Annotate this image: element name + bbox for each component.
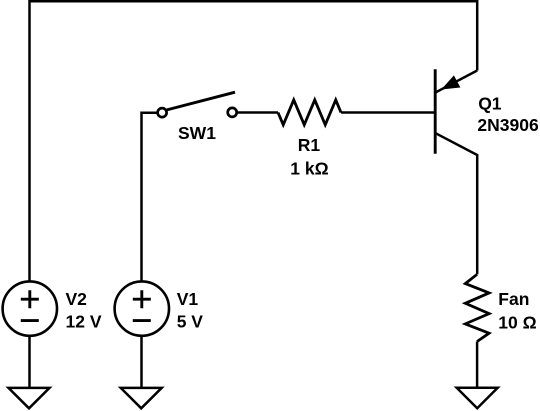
resistor Fan (465, 274, 489, 341)
svg-text:5 V: 5 V (177, 312, 204, 332)
svg-text:2N3906: 2N3906 (477, 115, 539, 135)
svg-text:R1: R1 (298, 135, 321, 155)
V1 minus sign (133, 319, 151, 322)
wire: Fan to ground (476, 342, 479, 389)
svg-text:10 Ω: 10 Ω (498, 313, 536, 333)
wire: V2 to ground (28, 336, 31, 388)
wire: top rail from V2 to Q1 emitter (30, 1, 478, 281)
svg-text:Fan: Fan (498, 289, 529, 309)
switch SW1 right terminal (228, 108, 237, 117)
wire: SW1 left terminal down to V1 (142, 113, 158, 282)
ground (V2) (9, 388, 50, 408)
ground (V1) (121, 388, 162, 408)
voltage source V1 circle (115, 281, 169, 335)
switch SW1 left terminal (158, 108, 167, 117)
ground (Fan) (457, 388, 498, 408)
V1 plus sign (133, 290, 151, 308)
V2 plus sign (21, 290, 39, 308)
switch SW1 lever (166, 92, 235, 110)
svg-text:1 kΩ: 1 kΩ (290, 158, 328, 178)
voltage source V2 circle (3, 281, 57, 335)
transistor Q1 collector lead (436, 133, 477, 274)
svg-text:V2: V2 (66, 289, 88, 309)
wire: V1 to ground (140, 336, 143, 388)
svg-text:12 V: 12 V (66, 312, 102, 332)
transistor Q1 emitter arrow (PNP) (442, 76, 459, 89)
V2 minus sign (21, 319, 39, 322)
svg-text:V1: V1 (177, 289, 199, 309)
svg-text:Q1: Q1 (478, 94, 502, 114)
transistor Q1 base bar (434, 69, 437, 154)
wire: R1 to Q1 base (341, 111, 435, 114)
transistor Q1 emitter lead (436, 71, 477, 93)
resistor R1 (278, 100, 341, 125)
svg-text:SW1: SW1 (178, 123, 216, 143)
wire: SW1 to R1 (237, 111, 278, 114)
